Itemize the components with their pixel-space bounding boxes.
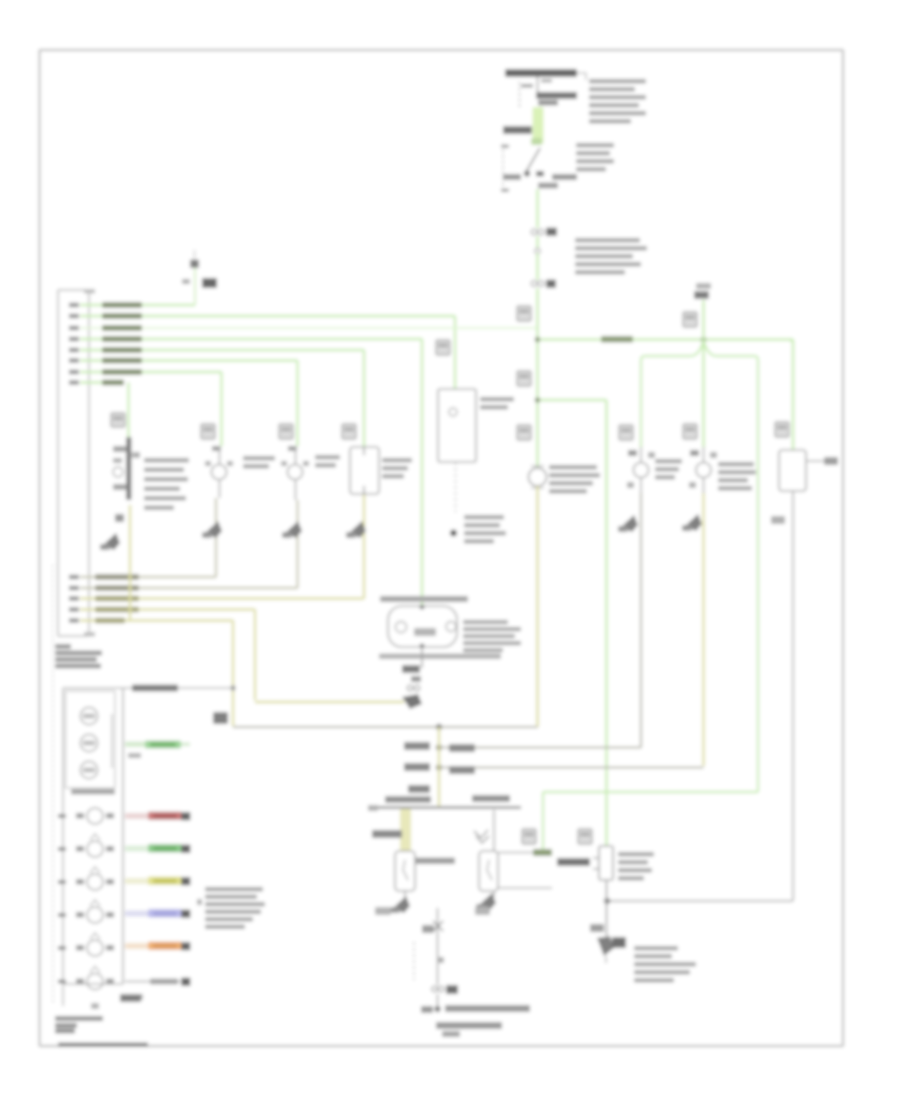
lamp L7 text block — [718, 462, 754, 467]
lamp L1 on spine — [529, 468, 547, 486]
arrow A8 — [402, 694, 422, 709]
wire R5 to lamp L5 — [80, 349, 364, 351]
bulb top ticks — [90, 834, 100, 840]
wire fuse to switch — [537, 77, 539, 92]
wire R1 to ground G1 — [80, 304, 195, 306]
lamp L5 text block — [382, 458, 412, 463]
label right of N5 — [449, 744, 475, 752]
note text block E — [205, 887, 263, 892]
relay K2 — [479, 851, 498, 891]
wire W8 Y-branch left — [641, 341, 704, 447]
relay K1 — [395, 851, 415, 891]
connector C17 inline — [432, 986, 437, 991]
wire B-R1 lamp L3 return — [80, 576, 216, 578]
junction box B1 — [438, 389, 476, 462]
wire W11 branch to glove box lamp — [540, 399, 607, 402]
footer text on frame — [58, 1043, 148, 1048]
title HOT AT ALL TIMES — [505, 69, 577, 77]
lamp L8 box — [779, 450, 806, 491]
ground G2 text block — [634, 946, 678, 951]
ground G4 — [493, 891, 495, 897]
leader line to fuse block label — [577, 72, 586, 74]
lamp L1 text block — [549, 465, 597, 470]
wire ROW3 yellow — [125, 878, 150, 884]
wire W19 lamp L8 down — [792, 491, 794, 901]
wire W29 — [437, 994, 439, 1007]
connector square C8 — [619, 425, 633, 440]
wire W10 tail lamp feed — [702, 300, 705, 447]
wire ROW4 blue — [125, 911, 150, 917]
lamp L2 combination — [126, 437, 132, 500]
bottom fan labels — [95, 574, 139, 580]
lamp L3 text block — [243, 456, 275, 461]
lamp L3 — [212, 465, 227, 480]
wire W3 — [536, 236, 539, 249]
splice S1 — [535, 248, 540, 253]
wire W7 to right lamp — [792, 340, 795, 451]
wire W21 unit U1 down — [606, 880, 608, 936]
wire W30 meter top feed — [123, 687, 233, 689]
lamp L6 — [634, 463, 649, 478]
wire R6 to lamp L4 — [80, 359, 298, 361]
node N7 junction — [604, 898, 610, 904]
meter connector label — [120, 994, 141, 1002]
wire W6 main horizontal bus — [540, 338, 793, 341]
connector square C16 — [578, 829, 592, 844]
wire B-R4 to illumination switch — [80, 608, 255, 610]
wire color label on W6 — [601, 336, 633, 343]
arrow A2 — [103, 533, 120, 550]
wire R4 to illumination control — [80, 338, 422, 340]
node N4b junction — [436, 724, 442, 730]
connector C18 inline — [407, 685, 412, 690]
wire W25 right leg — [493, 810, 495, 851]
ground G2 — [597, 936, 614, 956]
wire W2 switch to connector — [536, 189, 539, 228]
illumination control switch RH1 — [388, 606, 457, 647]
caption below RH1 — [379, 654, 501, 660]
smart entrance text block — [575, 238, 640, 243]
node N8 splice — [434, 1006, 440, 1012]
arrow A7 — [685, 514, 702, 531]
connector square C3 — [517, 306, 531, 321]
combination meter box M1 — [63, 688, 123, 984]
meter bulb circles — [87, 808, 103, 824]
caption above RH1 — [380, 596, 468, 602]
lighting switch SW1 — [502, 144, 504, 193]
node N2 junction — [535, 397, 541, 403]
gauge bulbs — [81, 708, 98, 725]
connector square C11 — [111, 413, 125, 427]
arrow A5 — [349, 521, 366, 538]
lamp L4 — [288, 465, 303, 480]
node N6 junction — [436, 764, 442, 770]
connector square C5 — [517, 425, 531, 440]
lamp L7 — [696, 463, 711, 478]
ground G1 symbol — [190, 260, 199, 269]
harness boundary dashed — [52, 565, 54, 1005]
meter box tail — [62, 984, 64, 1006]
switch position label left — [503, 174, 521, 180]
connector square C6 — [683, 312, 697, 327]
leg label — [372, 830, 402, 838]
connector square C15 — [522, 829, 536, 844]
wire W20 to daytime unit — [607, 900, 793, 902]
label left of N5 — [404, 742, 430, 750]
wire W15 lamp L6 down — [640, 493, 642, 748]
arrow A6 — [621, 515, 638, 532]
node dot — [450, 530, 457, 537]
power routing text — [421, 1006, 433, 1013]
contact marks — [474, 830, 488, 838]
wire W23 olive bus — [438, 727, 440, 806]
wire W9 Y-branch right — [704, 341, 759, 792]
wire W1 green feed — [533, 107, 544, 144]
lighting switch text block — [576, 143, 614, 148]
connector block J1 — [58, 290, 89, 636]
ground G3 — [404, 891, 406, 897]
wire W17 lamp L7 down — [702, 493, 704, 766]
bus labels — [385, 796, 431, 803]
wire color label — [503, 126, 532, 134]
connector square C4 — [517, 371, 531, 386]
bus bar BB1 — [378, 806, 521, 809]
gauge box label — [71, 789, 115, 795]
wire W26 relay K2 out top — [498, 852, 552, 854]
wire ROW1 red — [125, 813, 150, 819]
wire R7 to lamp L3 — [80, 371, 222, 373]
connector square C10 — [436, 340, 450, 355]
node N3 junction — [701, 337, 707, 343]
connector square C14 — [342, 424, 356, 439]
wire W16 collector to L6 — [443, 747, 641, 749]
fan wire labels — [102, 302, 142, 308]
resistor unit U1 — [599, 846, 613, 880]
wire R8 to lamp L2 — [80, 381, 122, 383]
relay K2 label — [557, 858, 590, 866]
unit U1 text block — [618, 852, 654, 857]
RH1 text block — [463, 620, 508, 624]
meter caption below — [55, 1016, 103, 1021]
meter column line — [122, 688, 124, 984]
fuse pin text — [541, 79, 552, 83]
note text block F — [55, 644, 71, 649]
lamp L8 lead — [806, 460, 830, 462]
connector square C12 — [201, 424, 215, 439]
meter inner gauge box — [66, 691, 116, 788]
dashed boundary — [413, 942, 415, 980]
note text block below B1 — [464, 515, 504, 520]
switch position label right — [552, 174, 577, 180]
wire W14 lamp L2 down — [129, 505, 131, 621]
lamp L5 box — [350, 447, 379, 494]
connector square C9 — [775, 422, 789, 437]
relay K1 label — [415, 858, 455, 865]
wire R3 faint to spine — [80, 327, 536, 329]
wire W28 reference chain — [437, 908, 439, 985]
wire W24 left leg — [400, 809, 411, 851]
wire B-R2 lamp L4 return — [80, 587, 298, 589]
fuse block label text — [589, 79, 646, 84]
wire W18 collector to L7 — [443, 767, 704, 769]
wire ROW5 orange — [125, 943, 150, 949]
arrow from tail lamp relay — [696, 283, 711, 289]
connector C1 inline — [531, 229, 537, 235]
connector square C7 — [683, 424, 697, 439]
arrow A1 — [213, 712, 228, 724]
arrow A4 — [285, 521, 302, 538]
junction box B1 text — [480, 397, 514, 402]
wire W22 green loop down — [543, 791, 758, 793]
wire W31 RH1 down — [421, 647, 423, 668]
fuse F1 value label — [536, 92, 577, 99]
node N1 junction — [535, 337, 541, 343]
node N5 junction — [436, 744, 442, 750]
label left of N6 — [404, 763, 430, 771]
node N4 junction — [230, 685, 235, 690]
dashed link below B1 — [455, 462, 457, 512]
lamp L6 text block — [655, 459, 682, 464]
label right of N6 — [449, 766, 475, 774]
connector J1 pins — [69, 303, 79, 307]
wire W27 relay K2 out bottom — [498, 887, 552, 889]
wire B-R3 lamp L5 return — [80, 597, 364, 599]
lamp L2 lower tick — [115, 514, 124, 522]
wire ROWG green — [125, 742, 147, 748]
fuse box dashed boundary — [519, 82, 521, 109]
wire W12 olive spine down — [536, 486, 539, 727]
wire W5 spine down to lamps — [536, 288, 539, 468]
wire ROW2 green — [125, 846, 150, 852]
stub label — [408, 785, 430, 793]
lamp L4 text block — [315, 455, 340, 460]
arrow A3 — [205, 521, 222, 538]
connector square C13 — [279, 424, 293, 439]
wire R2 to junction box B1 — [80, 315, 455, 317]
wire W4 — [536, 253, 539, 280]
wire W13 horizontal collector — [233, 726, 538, 728]
wire B-R5 to tail relay bus — [80, 619, 233, 621]
lamp L2 text block — [144, 458, 189, 463]
connector C2 inline — [531, 281, 537, 287]
wire ROW6 white — [125, 981, 180, 983]
